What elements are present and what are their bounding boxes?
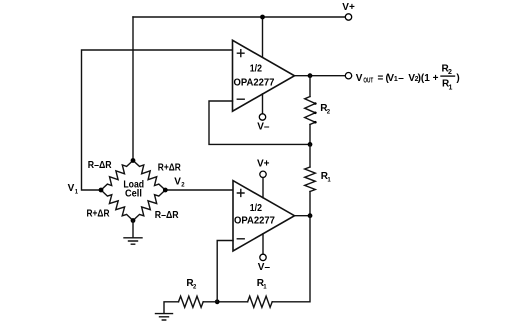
wire U1 feedback to R2/R1 node — [209, 101, 308, 144]
resistor R1 horizontal — [248, 296, 273, 307]
node R2 vertical peak dots — [314, 102, 317, 105]
wire U2 output down to bottom feedback row — [272, 216, 310, 302]
svg-text:OPA2277: OPA2277 — [234, 216, 275, 227]
op-amp U2 1/2 OPA2277 — [233, 181, 295, 251]
wire top V+ rail — [133, 16, 345, 18]
terminal U2 V+ — [260, 171, 266, 177]
wire R1 to junction — [217, 301, 247, 303]
resistor bridge bottom-left R+dR — [101, 190, 133, 221]
svg-text:R–ΔR: R–ΔR — [155, 210, 179, 221]
svg-text:V: V — [68, 183, 75, 194]
resistor bridge bottom-right R-dR — [133, 190, 165, 221]
label U1 plus — [237, 50, 244, 57]
svg-text:V: V — [356, 73, 363, 84]
svg-text:OUT: OUT — [363, 78, 373, 85]
wire R1 to U2 output node — [309, 192, 311, 216]
wire U2 V+ pin — [262, 178, 264, 198]
svg-text:)(1 +: )(1 + — [418, 73, 439, 84]
node bridge bottom — [131, 218, 136, 223]
node junction rail/U1 V+ — [260, 15, 265, 20]
svg-text:1/2: 1/2 — [250, 203, 263, 214]
wire node V1 to U1 + input — [82, 50, 233, 190]
svg-text:V–: V– — [258, 262, 271, 273]
node U1 output — [308, 73, 313, 78]
ground bridge — [124, 238, 142, 244]
node bridge top — [131, 158, 136, 163]
svg-text:1/2: 1/2 — [250, 63, 263, 74]
terminal U2 V- — [260, 254, 266, 260]
wire U2 V- pin — [262, 234, 264, 254]
ground bottom-left — [156, 314, 173, 320]
resistor R2 vertical — [305, 97, 316, 125]
wire U1 output — [295, 75, 346, 77]
wire bridge bottom to ground — [132, 221, 134, 238]
wire output node to R2 — [309, 76, 311, 97]
node R2/R1 junction — [308, 142, 313, 147]
svg-text:2: 2 — [448, 69, 452, 76]
wire node to R1 — [309, 144, 311, 167]
V+ terminal top — [345, 14, 351, 20]
svg-text:V+: V+ — [342, 2, 355, 13]
svg-text:1: 1 — [394, 76, 398, 83]
wire U2 inverting feedback — [217, 241, 233, 302]
svg-text:R+ΔR: R+ΔR — [158, 163, 182, 174]
svg-text:V–: V– — [257, 122, 270, 133]
label U1 minus — [237, 98, 244, 100]
svg-text:–: – — [398, 73, 404, 84]
wire U1 V- pin — [262, 94, 264, 114]
node R1/R2/feedback junction — [215, 299, 220, 304]
terminal VOUT — [345, 73, 351, 79]
resistor bridge top-right R+dR — [133, 161, 165, 191]
svg-text:V+: V+ — [257, 159, 270, 170]
wire U2 output — [295, 215, 311, 217]
wire op-amp U1 V+ pin — [262, 17, 264, 58]
svg-text:R+ΔR: R+ΔR — [87, 209, 111, 220]
terminal U1 V- — [259, 114, 265, 120]
svg-text:Cell: Cell — [125, 189, 142, 200]
wire node V2 to U2 + input — [165, 189, 233, 191]
svg-text:=: = — [378, 73, 384, 84]
op-amp U1 1/2 OPA2277 — [233, 40, 295, 111]
resistor bridge top-left R-dR — [101, 161, 133, 191]
resistor R2 horizontal — [179, 296, 204, 307]
label U2 plus — [237, 190, 244, 197]
node U2 output — [308, 213, 313, 218]
resistor R1 vertical — [305, 167, 316, 192]
label U2 minus — [237, 238, 244, 240]
svg-text:): ) — [456, 73, 459, 84]
node bridge right V2 — [163, 188, 168, 193]
svg-text:1: 1 — [449, 84, 453, 91]
wire bridge top feed — [132, 17, 134, 159]
svg-text:OPA2277: OPA2277 — [234, 78, 275, 89]
node bridge left V1 — [99, 188, 104, 193]
wire R2 to node — [309, 125, 311, 145]
svg-text:R–ΔR: R–ΔR — [88, 160, 112, 171]
wire R2 to ground — [164, 302, 217, 314]
